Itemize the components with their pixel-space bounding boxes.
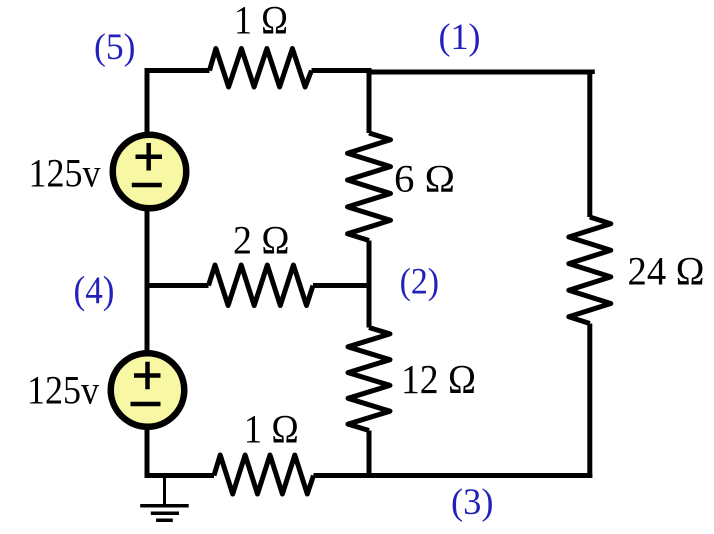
wire: R1 right to node1 junction [312, 68, 372, 73]
wire: node4 to R2 [145, 283, 209, 288]
ground bar 1 [140, 504, 189, 508]
minus sign of V2 [131, 402, 161, 407]
ground bar 3 [156, 518, 173, 522]
svg-text:(4): (4) [74, 269, 115, 312]
wire: R12 bottom to bottom wire [367, 431, 372, 479]
wire: R6 bottom to node2 [367, 241, 372, 289]
resistor R3 (1 ohm, bottom) [214, 455, 314, 494]
svg-text:1 Ω: 1 Ω [234, 0, 288, 43]
wire: V2 bottom to bottom-left corner [147, 426, 214, 476]
resistor R1 (1 ohm, top) [210, 49, 312, 88]
minus sign of V1 [132, 183, 162, 188]
wire: right vertical from top corner down to R24 [587, 70, 592, 217]
wire: top-left horizontal segment node5 to R1 [145, 68, 210, 73]
wire: node2 down to R12 [367, 283, 372, 328]
wire: node1 junction to top-right corner [369, 72, 592, 74]
wire: R2 to node2 [313, 283, 372, 288]
resistor R24 (24 ohm, vertical right) [569, 217, 611, 324]
svg-text:1 Ω: 1 Ω [244, 407, 299, 452]
ground stem [163, 476, 166, 506]
resistor R6 (6 ohm, vertical) [348, 133, 391, 241]
voltage source V2 (125v) [111, 353, 185, 427]
wire: left vertical node5 down to source V1 [145, 68, 150, 136]
wire: V2 node4 to source V2 [145, 283, 150, 354]
svg-text:2 Ω: 2 Ω [233, 218, 290, 263]
wire: V1 bottom to node4 [145, 207, 150, 288]
svg-text:(1): (1) [439, 17, 481, 58]
svg-text:24 Ω: 24 Ω [628, 249, 705, 294]
svg-text:(2): (2) [400, 262, 440, 303]
wire: bottom horizontal R3 to bottom-right corner [314, 473, 593, 478]
resistor R12 (12 ohm, vertical) [348, 328, 390, 431]
svg-text:6 Ω: 6 Ω [394, 157, 455, 201]
plus sign of V2 [134, 362, 161, 390]
svg-text:12 Ω: 12 Ω [401, 356, 476, 402]
ground bar 2 [151, 512, 179, 516]
svg-text:(5): (5) [94, 27, 136, 68]
plus sign of V1 [136, 143, 163, 171]
wire: R24 bottom to bottom-right corner [587, 324, 592, 479]
resistor R2 (2 ohm, middle) [209, 265, 314, 306]
wire: node1 junction down to R6 [367, 70, 372, 133]
svg-text:125v: 125v [29, 150, 101, 195]
voltage source V1 (125v) [113, 135, 187, 209]
svg-text:(3): (3) [451, 482, 494, 523]
svg-text:125v: 125v [27, 368, 99, 413]
